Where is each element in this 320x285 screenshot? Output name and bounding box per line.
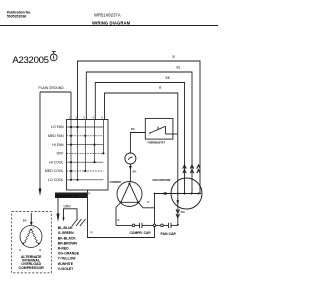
svg-text:R: R — [39, 248, 41, 252]
switch name plate — [55, 193, 87, 199]
wire W2 (BL) — [86, 72, 192, 194]
svg-text:LO FAN: LO FAN — [51, 125, 64, 129]
svg-text:C: C — [33, 227, 35, 230]
alternate compressor box — [12, 212, 52, 273]
wire junction vertical — [154, 194, 156, 225]
wire W3 (BK) — [95, 83, 184, 194]
svg-text:R-RED: R-RED — [58, 247, 69, 251]
svg-text:GRN: GRN — [64, 205, 72, 209]
svg-text:R: R — [88, 193, 90, 196]
svg-text:BK: BK — [131, 127, 135, 131]
svg-text:HI COOL: HI COOL — [49, 160, 63, 164]
svg-text:A232005: A232005 — [12, 55, 48, 66]
wire R from switch bottom to capacitor junction — [88, 190, 155, 238]
svg-text:BR-BROWN: BR-BROWN — [58, 241, 78, 245]
revision icon — [50, 54, 57, 61]
svg-text:THERMOSTAT: THERMOSTAT — [147, 141, 165, 145]
wire W1 (B) — [78, 61, 201, 194]
header publication number — [7, 10, 31, 18]
arrow down — [129, 166, 132, 170]
svg-text:FAN CAP.: FAN CAP. — [161, 232, 177, 236]
svg-text:5995352096: 5995352096 — [7, 15, 26, 19]
switch row contact lines — [67, 127, 104, 180]
svg-text:B: B — [118, 218, 120, 222]
thermostat left lead — [130, 133, 145, 154]
switch column 1 — [70, 120, 72, 180]
thermostat contact — [149, 132, 151, 134]
svg-text:R: R — [148, 201, 150, 204]
svg-text:W-WHITE: W-WHITE — [58, 262, 74, 266]
switch column 3 — [84, 120, 86, 172]
small arrow — [62, 218, 64, 222]
compressor capacitor C1 — [116, 224, 132, 226]
svg-text:LO COOL: LO COOL — [48, 178, 64, 182]
compressor start lead — [116, 202, 121, 225]
svg-text:SELECTOR SW.: SELECTOR SW. — [57, 194, 80, 198]
earth ground — [72, 219, 78, 226]
wire plain ground horizontal — [40, 91, 71, 93]
wire GRN bracket — [64, 209, 78, 219]
svg-text:HI FAN: HI FAN — [52, 143, 64, 147]
svg-text:OG-ORANGE: OG-ORANGE — [58, 252, 80, 256]
terminal dots — [177, 192, 179, 194]
switch column 4 — [94, 120, 96, 163]
svg-text:MED FAN: MED FAN — [48, 134, 64, 138]
svg-text:COMPR.: COMPR. — [110, 180, 122, 184]
alternate compressor caption — [19, 255, 45, 270]
internal arrow — [176, 200, 179, 204]
chevrons wire W1 — [197, 165, 200, 173]
junction node — [154, 193, 156, 195]
svg-text:MED COOL: MED COOL — [45, 169, 64, 173]
header rule — [0, 25, 218, 27]
wire ground left drop — [39, 92, 41, 189]
fan motor terminal bar — [155, 193, 202, 195]
svg-text:S: S — [19, 248, 21, 252]
wire BR fan motor to fan cap — [177, 194, 179, 224]
chevrons wire W2 — [190, 165, 193, 173]
wire ground to switch terminal 1 — [70, 92, 72, 120]
chevrons BR down — [176, 209, 179, 217]
chevrons wire W3 — [183, 165, 186, 173]
overload OL — [125, 153, 136, 164]
svg-text:G-GREEN: G-GREEN — [58, 231, 74, 235]
legend color code — [58, 226, 80, 271]
wire GRN drop from switch — [57, 198, 59, 214]
fan capacitor C2 — [156, 224, 161, 226]
svg-text:Y-YELLOW: Y-YELLOW — [58, 257, 77, 261]
ground arrow GRN — [57, 214, 60, 223]
svg-text:COMPRESSOR: COMPRESSOR — [19, 266, 45, 270]
svg-text:V-VIOLET: V-VIOLET — [58, 267, 74, 271]
ground arrow left — [39, 189, 42, 196]
svg-text:PLAIN GROUND: PLAIN GROUND — [39, 86, 65, 90]
thermostat U1 — [145, 118, 173, 139]
svg-text:FAN MOTOR: FAN MOTOR — [153, 178, 172, 182]
wire W4 (R) to thermostat branch — [105, 93, 178, 194]
selector switch box — [67, 120, 109, 191]
svg-text:OFF: OFF — [57, 152, 64, 156]
switch row labels — [45, 125, 64, 182]
thermostat right lead — [166, 133, 178, 135]
svg-text:BK: BK — [133, 169, 137, 173]
switch contact dots — [70, 126, 105, 181]
svg-text:BK: BK — [23, 218, 27, 222]
svg-text:WR51X8237A: WR51X8237A — [94, 13, 121, 18]
arrow left — [161, 192, 167, 195]
svg-text:BL: BL — [177, 65, 181, 69]
terminal numbers — [69, 116, 103, 120]
wire into alternate compressor — [30, 213, 32, 222]
wire overload to compressor — [129, 164, 131, 182]
svg-text:WIRING DIAGRAM: WIRING DIAGRAM — [92, 20, 131, 25]
switch column 5 — [102, 120, 104, 154]
svg-text:BL-BLUE: BL-BLUE — [58, 226, 74, 230]
svg-text:COMPR. CAP.: COMPR. CAP. — [130, 231, 152, 235]
svg-text:BK-BLACK: BK-BLACK — [58, 236, 76, 240]
compressor run lead — [138, 202, 154, 208]
alternate compressor M3 — [20, 226, 42, 248]
switch column 2 — [77, 120, 79, 180]
